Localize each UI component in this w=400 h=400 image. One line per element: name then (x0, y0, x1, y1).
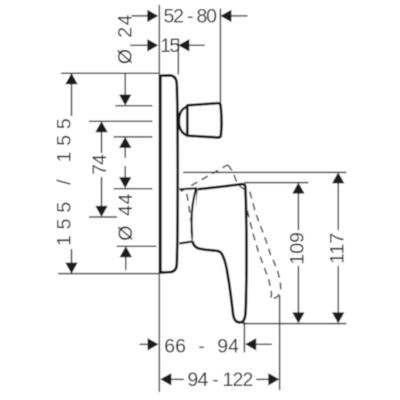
handle hub (179, 188, 196, 243)
knob axis line (89, 120, 153, 122)
ext 66-94 right (243, 322, 245, 353)
svg-text:117: 117 (326, 233, 348, 264)
o44 bottom line (117, 245, 157, 247)
ext 94-122 right (279, 296, 281, 391)
117 dim line (337, 182, 339, 230)
15 tails (130, 44, 150, 46)
arrow 15 R (178, 39, 189, 51)
svg-text:109: 109 (286, 232, 308, 265)
arrow 117 top (332, 172, 344, 183)
left long bottom line (58, 273, 159, 275)
arrow 66-94 R (245, 338, 256, 350)
descending from peak to loop (228, 165, 281, 298)
o24/44 connector (124, 148, 126, 159)
svg-text:Ø 44: Ø 44 (115, 193, 137, 241)
arrow 109 bottom (292, 312, 304, 323)
arrow o24 up/44top (119, 137, 131, 148)
right top line (117) (183, 171, 346, 173)
arrow 15 L (147, 39, 158, 51)
svg-text:15: 15 (160, 35, 180, 57)
hub hidden edge (187, 194, 192, 226)
knob bottom line (114, 136, 153, 138)
o44 lower tail (125, 255, 127, 270)
arrow 44 bottom (119, 177, 131, 188)
svg-text:74: 74 (89, 154, 111, 175)
52-80 tails (132, 15, 151, 17)
arrow 117 bottom (332, 312, 344, 323)
svg-text:52 - 80: 52 - 80 (163, 6, 217, 28)
94-122 dim line (168, 378, 184, 380)
ext line right of 52-80 (219, 9, 221, 104)
arrow 74 bottom (95, 206, 107, 217)
left branch of loop (247, 209, 272, 298)
arrow 155 top (65, 73, 77, 84)
arrow o24 down (119, 95, 131, 106)
arrow 109 top (292, 183, 304, 194)
arrow 94-122 L (160, 373, 171, 385)
arrow o44 up (120, 246, 132, 257)
155/155 dim line (71, 73, 73, 116)
svg-text:94 - 122: 94 - 122 (187, 369, 252, 391)
knob body (187, 103, 221, 137)
74 bottom line (89, 216, 117, 218)
66-94 tails (140, 343, 151, 345)
wall line (158, 5, 160, 392)
svg-text:155 / 155: 155 / 155 (54, 112, 76, 246)
arrow 155 bot (65, 263, 77, 274)
knob neck (179, 106, 188, 135)
right 2nd line (109) (244, 182, 308, 184)
svg-text:66 - 94: 66 - 94 (164, 335, 239, 357)
arrow 94-122 R (268, 373, 279, 385)
lever body (193, 184, 247, 322)
rising peak (181, 165, 228, 192)
knob top line (115, 105, 152, 107)
arrow 52-80 R (220, 10, 231, 22)
arrow 52-80 L (147, 10, 158, 22)
o24 drop line (124, 73, 126, 96)
lever left edge (196, 189, 199, 243)
ext line right of 15 (177, 39, 179, 75)
109 dim line (297, 192, 299, 230)
left long top line (61, 72, 159, 74)
arrow 74 top (95, 121, 107, 132)
arrow 66-94 L (148, 338, 159, 350)
bottom right line (243, 323, 347, 325)
escutcheon plate (160, 75, 177, 272)
line at 188.7 (114, 188, 153, 190)
svg-text:Ø 24: Ø 24 (115, 13, 137, 64)
74 dim line (101, 130, 103, 153)
